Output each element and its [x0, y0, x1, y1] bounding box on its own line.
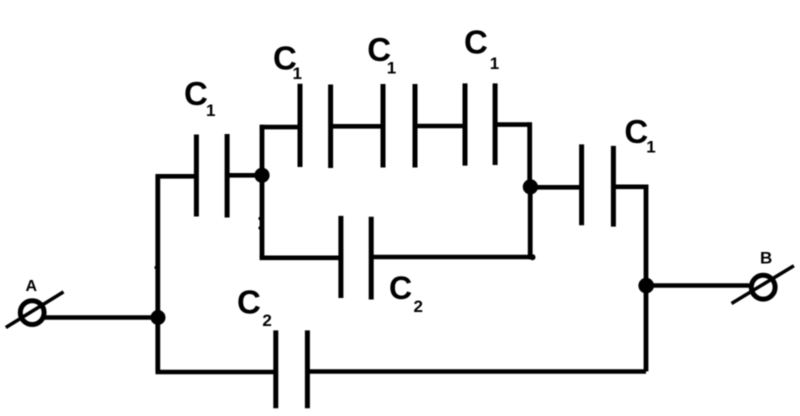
wire middle branch right: [371, 255, 534, 260]
wire N3 down to middle branch: [528, 187, 533, 259]
wire nub on N2 drop (upper): [258, 217, 261, 220]
wire right C1 to right vertical: [613, 185, 648, 190]
capacitor C1 left: [196, 134, 227, 218]
wire N3 to right C1: [530, 185, 581, 190]
wire left vertical: [155, 174, 160, 371]
wire between top-1 and top-2: [331, 124, 383, 129]
wire nub on N2 drop (lower): [258, 226, 261, 229]
node N4: [638, 278, 654, 294]
svg-text:B: B: [760, 249, 772, 268]
wire A to node: [44, 315, 158, 320]
label C1 top-2: [367, 31, 396, 77]
capacitor C1 right: [582, 144, 614, 226]
svg-text:1: 1: [387, 59, 396, 78]
wire between top-2 and top-3: [415, 124, 465, 129]
wire bottom branch left: [156, 370, 276, 375]
wire left C1 to node N2: [227, 173, 263, 178]
wire right vertical: [644, 185, 649, 372]
capacitor C1 top-2: [383, 84, 415, 168]
wire bottom branch right: [307, 369, 646, 374]
svg-text:2: 2: [262, 311, 271, 330]
wire nub on left vertical: [154, 266, 157, 269]
svg-text:1: 1: [293, 64, 302, 83]
wire middle branch left: [260, 255, 341, 260]
wire top branch to first plate: [260, 125, 300, 130]
capacitor C1 top-1: [300, 84, 331, 168]
wire N2 down to middle branch: [260, 175, 265, 258]
svg-text:2: 2: [414, 297, 423, 316]
label C2 bottom: [237, 283, 272, 330]
capacitor C2 middle: [341, 216, 371, 300]
capacitor C2 bottom: [276, 330, 308, 408]
capacitor C1 top-3: [465, 83, 495, 165]
wire to left C1: [156, 174, 197, 179]
svg-text:1: 1: [646, 137, 655, 156]
svg-text:C: C: [237, 283, 261, 320]
svg-text:C: C: [184, 75, 208, 112]
node N1 (A junction): [151, 310, 166, 325]
wire corner knot at middle-right junction: [530, 254, 536, 260]
svg-text:1: 1: [490, 54, 499, 73]
label C1 right: [624, 113, 655, 156]
node N2: [254, 168, 269, 183]
svg-text:A: A: [26, 278, 38, 295]
label C1 top-3: [464, 23, 499, 73]
node N3: [523, 179, 538, 194]
terminal A: [6, 292, 64, 328]
wire top-3 to right riser: [495, 122, 530, 127]
wire N4 to terminal B: [646, 283, 749, 288]
svg-text:C: C: [464, 23, 488, 60]
wire riser N2 to top branch: [260, 125, 265, 178]
label C1 left: [184, 75, 215, 120]
svg-text:1: 1: [206, 101, 215, 120]
svg-text:C: C: [389, 270, 412, 306]
svg-text:C: C: [624, 113, 648, 150]
label C2 middle: [389, 270, 423, 316]
terminal B: [732, 266, 794, 304]
label C1 top-1: [273, 39, 302, 83]
wire right riser down to node N3: [527, 122, 532, 187]
